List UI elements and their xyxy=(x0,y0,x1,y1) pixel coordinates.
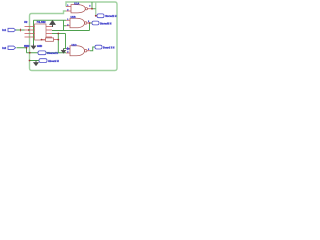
net flag Output3 pill xyxy=(95,45,102,49)
gate U1A bubble xyxy=(85,8,87,10)
wire gate1 output to flag stub xyxy=(92,8,96,10)
junction dot input2 corner xyxy=(26,47,28,49)
wire output1 flag lead xyxy=(96,15,97,17)
wire long horizontal to gate2 input1 xyxy=(34,19,67,21)
svg-text:SW2: SW2 xyxy=(24,45,30,48)
wire gate2 output to flag xyxy=(90,22,93,24)
wire ground G2 stub xyxy=(64,48,67,50)
gate U1C (NAND) body xyxy=(70,46,85,56)
diode D2 tick on input1 wire xyxy=(20,29,22,32)
svg-text:Stored1 H: Stored1 H xyxy=(105,15,117,18)
svg-text:Aboard H: Aboard H xyxy=(48,60,59,63)
gate U1B pins xyxy=(66,20,90,26)
IC U2 right pins xyxy=(46,27,52,38)
net flag Output1 pill xyxy=(97,14,104,18)
net flag Aboard pill xyxy=(39,59,47,63)
svg-text:U1B: U1B xyxy=(71,16,76,19)
svg-text:Board 3 H: Board 3 H xyxy=(103,46,115,49)
junction dot gate1 output xyxy=(91,8,93,10)
junction dot gate2 output xyxy=(89,22,91,24)
resistor R1 body xyxy=(46,38,54,41)
svg-text:In1: In1 xyxy=(2,28,6,32)
gate U1B bubble xyxy=(85,22,87,24)
wire IC pin to gate2 output column xyxy=(52,30,90,32)
junction dot bottom flag on ring xyxy=(29,60,31,62)
junction dot resistor column top xyxy=(57,33,59,35)
wire output1 vertical drop xyxy=(95,2,97,16)
IC U2 body xyxy=(35,24,47,40)
wire gate3 output to flag xyxy=(90,47,95,51)
wire gate2 input2 feed vertical xyxy=(64,20,67,30)
wire bottom flag lead xyxy=(30,60,40,62)
svg-text:U2: U2 xyxy=(24,20,28,24)
svg-text:In2: In2 xyxy=(2,46,6,50)
wire vertical to ground G1 xyxy=(33,20,35,44)
wire cleared net horizontal xyxy=(27,52,67,54)
svg-text:3: 3 xyxy=(89,5,91,7)
junction dot resistor left pin xyxy=(41,39,43,41)
wire input2 lead xyxy=(17,47,27,49)
wire IC row3 to gate3 column xyxy=(52,33,66,35)
IC U2 left pins xyxy=(25,27,35,38)
wire feedback ring (pale green net routed around sheet) xyxy=(30,2,118,71)
input connector IN1 xyxy=(8,28,16,31)
wire gate1 output up-stub xyxy=(91,2,93,9)
gate U1B (NAND) body xyxy=(70,18,85,28)
gate U1C pins xyxy=(66,49,90,54)
wire gate2 output down-stub xyxy=(89,23,91,31)
svg-text:74LS02: 74LS02 xyxy=(37,20,47,24)
gate U1C bubble xyxy=(85,50,87,52)
VCC power arrow xyxy=(49,20,55,26)
junction dot cleared net on ring xyxy=(29,52,31,54)
net flag Output2 pill xyxy=(92,21,99,25)
ground G3 xyxy=(33,61,38,66)
junction dot at IC pin2 / input1 xyxy=(28,29,30,31)
gate U1A (NAND) body xyxy=(71,5,85,13)
junction dot output1 flag xyxy=(95,15,97,17)
svg-text:Stored0 H: Stored0 H xyxy=(100,22,112,25)
gate U1A pins xyxy=(66,7,92,12)
ground G1 xyxy=(31,44,36,49)
junction dot input1 tick xyxy=(20,29,21,30)
svg-text:Cleared H: Cleared H xyxy=(47,52,58,55)
junction dot resistor right pin xyxy=(57,39,59,41)
wire input1 to IC xyxy=(16,29,25,31)
wire resistor column vertical xyxy=(57,34,59,53)
svg-text:U1C: U1C xyxy=(72,44,77,47)
wire vertical to gate3 input1 xyxy=(65,34,68,49)
svg-text:U1A: U1A xyxy=(74,3,79,6)
ground G2 xyxy=(61,49,66,54)
resistor R1 pins xyxy=(42,39,59,41)
input connector IN2 xyxy=(8,46,16,49)
net flag Cleared pill xyxy=(38,51,46,55)
svg-text:GND: GND xyxy=(37,46,42,48)
wire input2 down segment xyxy=(26,48,28,53)
